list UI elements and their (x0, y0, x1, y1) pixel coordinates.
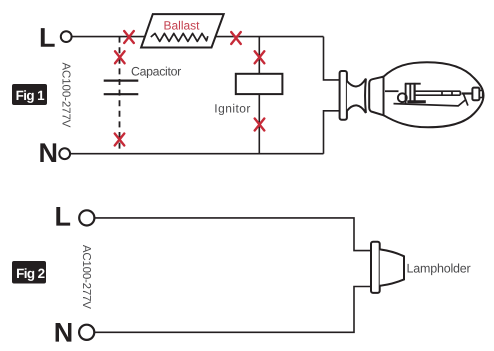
wire: N terminal to right corner (bottom wire) (70, 153, 323, 155)
lamp bulb envelope (384, 62, 484, 127)
removal cross X3 on top wire right of ballast (231, 32, 241, 44)
svg-text:Fig 1: Fig 1 (16, 88, 45, 103)
wire: lampholder to N (Fig 2 bottom) (94, 287, 371, 333)
svg-text:AC100-277V: AC100-277V (80, 245, 92, 309)
bulb internal: cage bottom bar (407, 100, 426, 103)
wire: right side down to lamp (top) (324, 37, 340, 80)
svg-text:Ballast: Ballast (163, 19, 200, 33)
bulb internal: cage vertical 2 (409, 84, 411, 101)
svg-text:Capacitor: Capacitor (131, 64, 181, 78)
Fig 2 label box (12, 261, 46, 284)
svg-text:Ignitor: Ignitor (214, 102, 251, 116)
bulb internal: rail end tick (459, 91, 461, 95)
bulb internal: cage vertical 1 (405, 84, 407, 105)
bulb internal: rail tick 2 (451, 91, 453, 95)
lamp socket waist (spool) (347, 79, 366, 113)
svg-text:N: N (38, 138, 58, 168)
svg-text:AC100-277V: AC100-277V (59, 62, 71, 127)
capacitor C bottom plate (104, 93, 139, 95)
terminal circle L (Fig 1) (61, 31, 72, 42)
terminal circle N (Fig 1) (59, 148, 70, 159)
bulb internal: arc tube upper rail (414, 90, 461, 92)
lamp neck seal line (383, 77, 385, 116)
removal cross X4 on ignitor branch top (255, 51, 265, 63)
removal cross X6 on capacitor branch bottom (115, 134, 125, 146)
ignitor box (236, 74, 283, 94)
removal cross X1 on top wire left of ballast (124, 31, 134, 43)
svg-text:Fig 2: Fig 2 (16, 266, 44, 281)
Fig 1 label box (12, 84, 47, 105)
capacitor C top plate (104, 79, 139, 81)
bulb internal: cage top bar (405, 83, 421, 85)
svg-text:N: N (54, 318, 74, 348)
removal cross X5 on ignitor branch bottom (255, 119, 265, 131)
wire: ballast right edge to right corner (top wire) (216, 36, 324, 38)
wire: L to lampholder (Fig 2 top) (95, 218, 372, 251)
bulb internal: support loop circle (398, 93, 407, 102)
wire: ignitor branch lower lead (258, 94, 260, 154)
wire: dashed capacitor branch (to be removed) (119, 37, 121, 154)
bulb internal: diagonal support slash (463, 94, 468, 106)
bulb internal: rail tick 1 (441, 91, 443, 95)
lamp socket flange (Fig 1) (340, 71, 347, 120)
terminal circle N (Fig 2) (79, 325, 94, 340)
bulb internal: cage vertical 3 (414, 83, 416, 102)
lampholder flange (Fig 2) (371, 242, 380, 293)
svg-text:L: L (54, 202, 71, 232)
terminal circle L (Fig 2) (79, 210, 94, 225)
bulb internal: lead to arc tube end (462, 92, 473, 94)
lamp neck (369, 77, 383, 116)
wire: ignitor branch upper lead (258, 37, 260, 74)
lampholder horn (380, 249, 404, 285)
bulb internal: lower frame wire (394, 100, 466, 106)
bulb internal: stem lead from neck (385, 90, 399, 92)
removal cross X2 on capacitor branch top (115, 51, 125, 63)
svg-text:L: L (39, 23, 56, 53)
wire: L terminal to ballast left edge (top wire) (72, 36, 145, 38)
wire: right side from lamp to bottom (324, 111, 340, 154)
ballast parallelogram outline (141, 14, 224, 47)
svg-text:Lampholder: Lampholder (407, 262, 471, 276)
bulb internal: arc tube lower rail (414, 94, 461, 96)
bulb internal: arc tube end body (472, 88, 479, 101)
ballast winding zigzag (151, 33, 208, 41)
bulb internal: arc tube end nipple (479, 91, 482, 98)
